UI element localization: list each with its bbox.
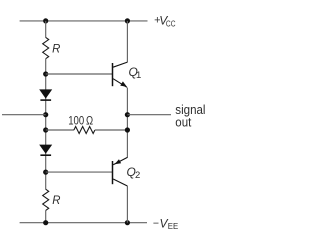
transistor Q2 (113, 157, 128, 186)
node A base of Q1 junction (43, 71, 48, 76)
svg-text:−: − (153, 217, 159, 229)
wire Q1 base (46, 73, 113, 75)
label -VEE (153, 216, 178, 231)
resistor R1 (43, 37, 49, 58)
svg-text:100 Ω: 100 Ω (68, 113, 93, 127)
diode D1 (39, 89, 52, 100)
node 100ohm left junction (43, 127, 48, 132)
label Q1 (129, 65, 142, 81)
resistor R2 (43, 189, 49, 210)
wire left vertical R2 to bottom rail (45, 210, 47, 222)
wire signal out stub (127, 114, 171, 116)
label signal out (175, 102, 205, 129)
wire bottom rail -VEE (20, 222, 147, 224)
wire Q1 emitter vertical down to Q2 emitter (126, 88, 128, 158)
wire top rail +VCC (20, 20, 148, 22)
transistor Q1 (113, 62, 128, 87)
diode D2 (39, 145, 52, 156)
wire left vertical R1 down through diodes to R2 (45, 59, 47, 190)
svg-text:1: 1 (136, 70, 141, 81)
node junction top-left (43, 18, 48, 23)
label Q2 (127, 165, 141, 181)
svg-text:2: 2 (135, 170, 140, 181)
wire Q2 base (46, 171, 113, 173)
wire Q1 collector vertical (126, 21, 128, 62)
resistor 100 ohm (74, 127, 95, 134)
wire input left stub (2, 114, 46, 116)
svg-text:CC: CC (166, 19, 176, 28)
wire 100ohm to right vertical (95, 129, 128, 131)
node junction bottom-right (125, 220, 130, 225)
node 100ohm right junction (125, 127, 130, 132)
wire Q2 collector vertical to bottom rail (126, 186, 128, 223)
node junction top-right (125, 18, 130, 23)
node junction bottom-left (43, 220, 48, 225)
node signal out junction (125, 112, 130, 117)
svg-text:R: R (52, 41, 61, 55)
wire left vertical VCC to R1 (45, 21, 47, 38)
node base of Q2 junction (43, 170, 48, 175)
svg-text:out: out (175, 114, 191, 129)
svg-text:R: R (52, 193, 61, 207)
wire to 100 ohm resistor (46, 129, 74, 131)
node input junction (43, 112, 48, 117)
svg-text:EE: EE (168, 222, 178, 231)
label +VCC (154, 14, 176, 29)
